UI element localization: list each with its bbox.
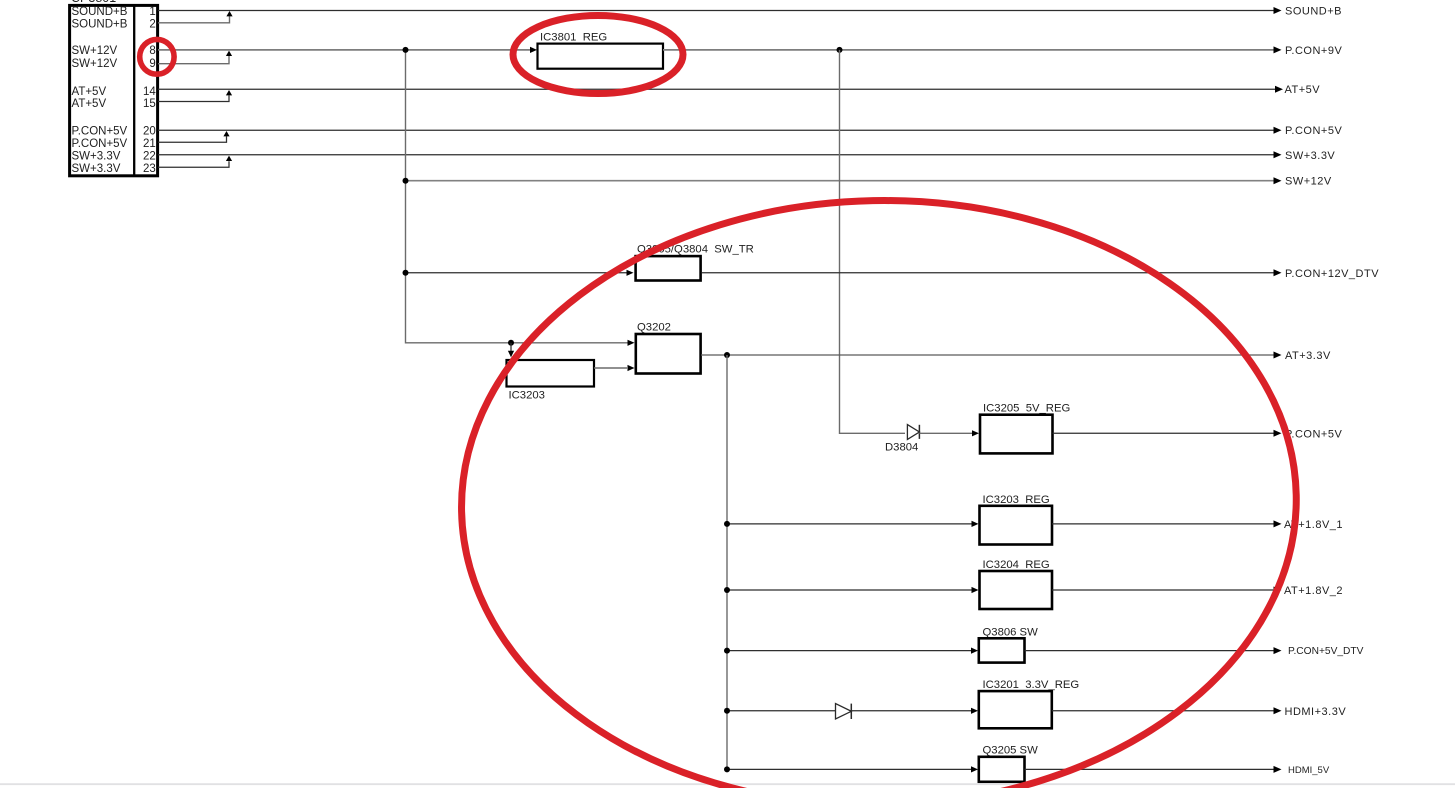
- svg-text:HDMI+3.3V: HDMI+3.3V: [1285, 706, 1347, 718]
- svg-text:IC3204 REG: IC3204 REG: [983, 559, 1050, 571]
- wire IC3801 output to P.CON+9V: [663, 49, 1277, 51]
- output arrowhead P.CON+12V_DTV: [1274, 269, 1282, 276]
- svg-text:P.CON+5V: P.CON+5V: [72, 138, 128, 150]
- junction dot P.CON+9V / bus B: [837, 47, 843, 53]
- diode D3804: [907, 425, 919, 440]
- svg-text:D3804: D3804: [885, 442, 918, 454]
- svg-text:IC3801 REG: IC3801 REG: [540, 32, 607, 44]
- transistor Q3202 box: [636, 334, 701, 374]
- wire diode to IC3201: [851, 710, 974, 712]
- transistor Q3205 box: [979, 757, 1025, 782]
- regulator IC3204 REG box: [980, 571, 1053, 609]
- svg-text:SW+12V: SW+12V: [1285, 176, 1332, 188]
- red annotation circle around pins 8/9: [140, 39, 174, 74]
- transistor Q3806 box: [979, 638, 1025, 662]
- output arrowhead P.CON+9V: [1274, 46, 1282, 53]
- junction dot AT+1.8V_1 tap: [724, 521, 730, 527]
- wire bus C to Q3806: [727, 650, 975, 652]
- wire net P.CON+5V from pin 20 to right edge: [158, 129, 1277, 131]
- arrow into Q3202 lower input: [628, 365, 635, 371]
- svg-text:P.CON+5V: P.CON+5V: [1285, 428, 1342, 440]
- svg-text:IC3201 3.3V_REG: IC3201 3.3V_REG: [983, 679, 1080, 691]
- svg-text:SOUND+B: SOUND+B: [72, 6, 128, 18]
- output arrowhead AT+1.8V_2: [1274, 587, 1282, 594]
- wire IC3204 REG output to AT+1.8V_2: [1052, 589, 1277, 591]
- wire net AT+5V from pin 14 to right edge: [158, 88, 1279, 90]
- wire IC3201 output to HDMI+3.3V: [1052, 710, 1277, 712]
- output arrowhead AT+1.8V_1: [1274, 520, 1282, 527]
- up arrow pin 21 joining P.CON+5V net: [223, 131, 229, 136]
- svg-text:AT+1.8V_2: AT+1.8V_2: [1284, 585, 1343, 597]
- arrow into Q3205: [971, 766, 978, 772]
- wire IC3205 output to P.CON+5V: [1053, 432, 1278, 434]
- svg-text:SW+12V: SW+12V: [72, 58, 118, 70]
- regulator IC3201 box: [979, 691, 1052, 728]
- arrow into IC3203 REG: [972, 521, 979, 527]
- arrow into IC3801: [530, 47, 537, 53]
- arrow into Q3805/Q3804: [627, 270, 634, 276]
- svg-text:Q3202: Q3202: [637, 322, 671, 334]
- wire bus C to IC3204 REG: [727, 589, 975, 591]
- svg-text:1: 1: [149, 6, 155, 18]
- svg-text:IC3205 5V_REG: IC3205 5V_REG: [983, 403, 1070, 415]
- junction dot HDMI_5V tap: [724, 766, 730, 772]
- svg-text:SOUND+B: SOUND+B: [1285, 6, 1342, 18]
- svg-text:AT+5V: AT+5V: [72, 86, 107, 98]
- wire net P.CON+12V_DTV feed to Q3805/Q3804: [406, 272, 631, 274]
- wire net SW+12V/P.CON+9V from pin 8 to IC3801 input: [158, 49, 534, 51]
- regulator IC3205 box: [980, 415, 1053, 454]
- junction dot SW+12V tap: [403, 178, 409, 184]
- connector CP3801 body: [70, 5, 158, 175]
- arrow into IC3204 REG: [972, 587, 979, 593]
- wire Q3805 output to P.CON+12V_DTV: [702, 272, 1277, 274]
- output arrowhead HDMI+3.3V: [1274, 707, 1282, 714]
- output arrowhead P.CON+5V_DTV: [1274, 647, 1282, 654]
- output arrowhead HDMI_5V: [1274, 766, 1282, 773]
- junction dot P.CON+5V_DTV tap: [724, 648, 730, 654]
- output arrowhead SOUND+B: [1274, 7, 1282, 14]
- regulator IC3203 REG box: [980, 506, 1053, 545]
- svg-text:P.CON+5V_DTV: P.CON+5V_DTV: [1288, 646, 1364, 657]
- svg-text:2: 2: [149, 19, 155, 31]
- wire bus C to Q3205: [727, 768, 975, 770]
- svg-text:8: 8: [149, 45, 155, 57]
- svg-text:AT+3.3V: AT+3.3V: [1285, 350, 1331, 362]
- wire pin 23 stub: [158, 161, 229, 167]
- regulator IC3203 (controller) box: [507, 360, 595, 387]
- wire net SOUND+B from pin 1 to right edge: [158, 10, 1277, 12]
- wire diode D3804 to IC3205: [919, 432, 975, 434]
- svg-text:IC3203 REG: IC3203 REG: [983, 494, 1050, 506]
- svg-text:SOUND+B: SOUND+B: [72, 19, 128, 31]
- wire IC3203 REG output to AT+1.8V_1: [1052, 523, 1277, 525]
- svg-text:AT+5V: AT+5V: [72, 98, 107, 110]
- wire Q3806 output to P.CON+5V_DTV: [1025, 650, 1278, 652]
- svg-text:SW+3.3V: SW+3.3V: [72, 151, 121, 163]
- junction dot HDMI+3.3V tap: [724, 708, 730, 714]
- up arrow pin 2 joining SOUND+B net: [226, 11, 232, 16]
- svg-text:9: 9: [149, 58, 155, 70]
- svg-text:SW+3.3V: SW+3.3V: [1285, 150, 1335, 162]
- vertical bus from SW+12V net at x=405 down to Q3202 feed: [406, 50, 632, 343]
- svg-text:SW+12V: SW+12V: [72, 45, 118, 57]
- wire pin 9 stub: [158, 56, 229, 64]
- red annotation big ellipse over lower circuit: [456, 192, 1303, 788]
- wire bus C to diode and IC3201: [727, 710, 836, 712]
- connector CP3801 column divider: [133, 5, 135, 175]
- up arrow pin 23 joining SW+3.3V net: [226, 156, 232, 161]
- wire bus C to IC3203 REG: [727, 523, 975, 525]
- output arrowhead P.CON+5V (from IC3205): [1274, 430, 1282, 437]
- svg-text:14: 14: [143, 86, 156, 98]
- svg-text:AT+5V: AT+5V: [1285, 84, 1321, 96]
- transistor Q3805/Q3804 box: [636, 256, 701, 280]
- output arrowhead SW+12V: [1274, 177, 1282, 184]
- svg-text:15: 15: [143, 98, 156, 110]
- svg-text:SW+3.3V: SW+3.3V: [72, 163, 121, 175]
- svg-text:Q3205 SW: Q3205 SW: [983, 745, 1039, 757]
- wire IC3203 output to Q3202 lower input: [594, 367, 627, 369]
- wire Q3205 output to HDMI_5V: [1025, 768, 1278, 770]
- up arrow pin 15 joining AT+5V net: [226, 90, 232, 95]
- output arrowhead AT+3.3V: [1274, 352, 1282, 359]
- arrow into IC3205: [972, 430, 979, 436]
- junction dot AT+1.8V_2 tap: [724, 587, 730, 593]
- output arrowhead AT+5V: [1275, 86, 1283, 93]
- output arrowhead SW+3.3V: [1274, 151, 1282, 158]
- svg-text:Q3806 SW: Q3806 SW: [983, 627, 1039, 639]
- wire arrow down into IC3203: [510, 343, 512, 353]
- svg-text:20: 20: [143, 126, 156, 138]
- svg-text:P.CON+12V_DTV: P.CON+12V_DTV: [1285, 268, 1379, 280]
- wire pin 2 stub: [158, 16, 230, 23]
- page break line at bottom: [0, 783, 1455, 785]
- svg-text:HDMI_5V: HDMI_5V: [1288, 765, 1330, 776]
- vertical bus C down left of regulators: [726, 355, 728, 769]
- output arrowhead P.CON+5V: [1274, 127, 1282, 134]
- wire pin 21 stub: [158, 136, 227, 142]
- svg-text:P.CON+9V: P.CON+9V: [1285, 45, 1342, 57]
- wire pin 15 stub: [158, 96, 229, 102]
- up arrow pin 9 joining SW+12V net: [226, 51, 232, 56]
- arrow into Q3202 upper input: [628, 340, 635, 346]
- diode (unlabelled) feeding IC3201: [836, 704, 852, 719]
- junction dot bus C top: [724, 352, 730, 358]
- arrow into Q3806: [971, 648, 978, 654]
- svg-text:22: 22: [143, 151, 156, 163]
- red annotation ellipse around IC3801: [513, 16, 683, 94]
- wire Q3202 output to AT+3.3V: [701, 354, 1277, 356]
- svg-text:IC3203: IC3203: [509, 390, 545, 402]
- svg-text:P.CON+5V: P.CON+5V: [1285, 125, 1342, 137]
- vertical bus B from P.CON+9V down to IC3205 feed: [840, 50, 906, 433]
- arrow into IC3201: [971, 708, 978, 714]
- svg-text:P.CON+5V: P.CON+5V: [72, 126, 128, 138]
- junction dot bus A top: [403, 47, 409, 53]
- wire net SW+3.3V from pin 22 to right edge: [158, 154, 1277, 156]
- svg-text:21: 21: [143, 138, 156, 150]
- svg-text:23: 23: [143, 163, 156, 175]
- junction dot IC3203 tap: [508, 340, 514, 346]
- wire net SW+12V output run: [406, 180, 1278, 182]
- down arrowhead into IC3203: [508, 351, 514, 357]
- regulator IC3801 box: [538, 44, 664, 69]
- junction dot P.CON+12V_DTV tap: [403, 270, 409, 276]
